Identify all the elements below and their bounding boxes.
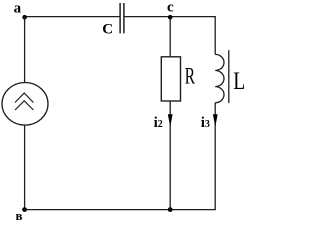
wire: left branch lower (source down to node b) xyxy=(24,125,26,210)
wire: bottom xyxy=(25,209,216,211)
svg-text:R: R xyxy=(185,65,196,90)
svg-text:C: C xyxy=(102,22,113,38)
wire: left branch upper (node a down to source) xyxy=(24,17,26,83)
capacitor C plates xyxy=(119,3,121,33)
current arrow i3 xyxy=(213,114,218,127)
inductor L coil arcs xyxy=(215,54,224,102)
bottom junction dot xyxy=(168,207,173,212)
resistor R xyxy=(161,57,180,101)
wire: resistor down to bottom xyxy=(169,101,171,210)
svg-text:в: в xyxy=(16,208,23,222)
inductor core line xyxy=(228,50,230,103)
svg-text:L: L xyxy=(233,67,245,95)
wire: top right segment (capacitor to top-right corner) xyxy=(124,16,215,18)
wire: inductor down to bottom-right corner xyxy=(214,103,216,210)
source U1 (circle with double chevron) xyxy=(2,83,48,126)
wire: top left segment (node a to capacitor) xyxy=(25,16,120,18)
svg-text:c: c xyxy=(167,0,174,16)
wire: top-right corner down to inductor xyxy=(214,17,216,55)
svg-text:a: a xyxy=(14,1,22,17)
node c dot xyxy=(168,15,173,20)
source chevron upper xyxy=(15,93,33,103)
node a dot xyxy=(22,15,27,20)
current arrow i2 xyxy=(168,114,173,127)
node b dot xyxy=(22,207,27,212)
wire: node c down to resistor xyxy=(169,17,171,57)
source chevron lower xyxy=(15,101,33,110)
